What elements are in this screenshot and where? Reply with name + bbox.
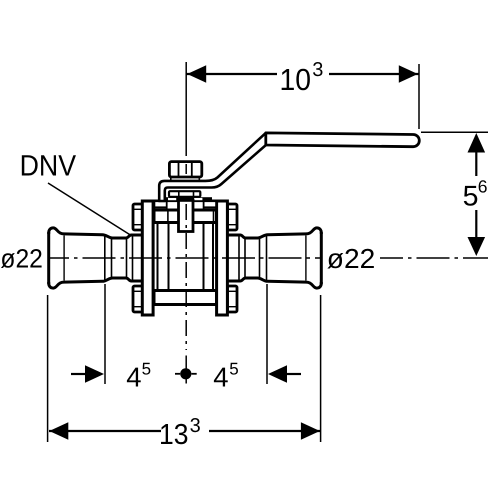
svg-text:13: 13 <box>159 419 189 451</box>
extension line top right <box>418 64 420 129</box>
stem washer plate <box>171 177 200 181</box>
valve body left bolts <box>133 204 143 312</box>
right press fitting <box>227 228 321 288</box>
svg-text:3: 3 <box>312 59 323 81</box>
svg-text:4: 4 <box>126 362 141 393</box>
body center section <box>153 201 218 305</box>
top weld bar <box>154 210 217 223</box>
handle grip <box>266 133 419 147</box>
svg-text:5: 5 <box>229 359 238 378</box>
label diameter 22 left <box>0 244 43 274</box>
stem housing <box>179 200 194 231</box>
center reference dot <box>175 368 197 379</box>
svg-text:10: 10 <box>280 63 312 97</box>
svg-text:ø22: ø22 <box>327 243 376 274</box>
svg-text:6: 6 <box>478 177 488 197</box>
svg-text:3: 3 <box>190 415 201 437</box>
stem base plate <box>159 197 213 201</box>
label DNV <box>20 149 132 236</box>
svg-text:DNV: DNV <box>20 149 77 182</box>
dimension 13^3 bottom <box>48 295 321 451</box>
svg-text:ø22: ø22 <box>0 244 43 274</box>
vertical centerline <box>185 62 187 384</box>
bottom weld bar <box>154 291 217 305</box>
valve body right bolts <box>228 204 238 312</box>
svg-text:5: 5 <box>463 181 479 213</box>
body mid verticals <box>157 223 159 291</box>
top mounting pad windows <box>168 198 202 200</box>
svg-text:4: 4 <box>213 362 228 393</box>
packing nut <box>169 191 200 197</box>
label diameter 22 right <box>327 243 376 274</box>
dimension 4^5 left <box>71 284 151 393</box>
right flange <box>217 201 228 315</box>
dimension 4^5 right <box>213 284 301 393</box>
dimension 5^6 right <box>421 132 488 256</box>
handle nut <box>169 162 201 177</box>
horizontal centerline <box>49 257 488 259</box>
svg-text:5: 5 <box>142 359 151 378</box>
left press fitting <box>49 228 143 288</box>
handle lever arm <box>159 133 266 201</box>
left flange <box>142 201 153 315</box>
dimension 10^3 top <box>186 59 418 97</box>
